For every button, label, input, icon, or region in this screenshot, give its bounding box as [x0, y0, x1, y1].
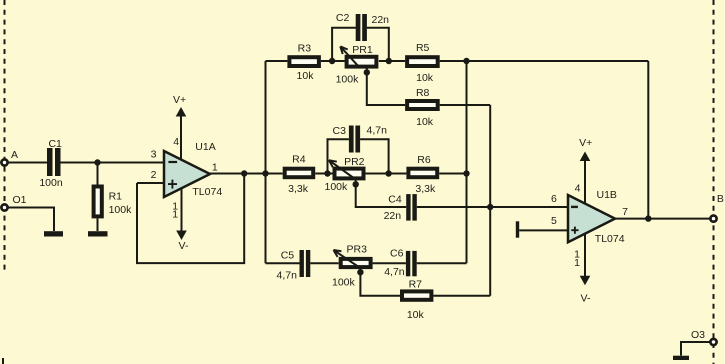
junction U1B output / top rail — [645, 215, 651, 221]
potentiometer PR1 body — [347, 57, 377, 67]
wire O1 to ground — [8, 208, 54, 232]
svg-text:1: 1 — [574, 257, 580, 269]
wire C4 right — [417, 206, 490, 208]
svg-text:22n: 22n — [384, 210, 402, 222]
svg-text:3: 3 — [151, 148, 157, 160]
wire row3 to C5 — [266, 262, 300, 264]
U1A pin 11 label (stacked digits) — [172, 200, 178, 220]
junction C3 right branch — [385, 170, 391, 176]
PR1 wiper terminal — [364, 68, 370, 76]
svg-text:V-: V- — [581, 293, 591, 305]
ground R1 — [88, 231, 108, 236]
svg-text:22n: 22n — [372, 14, 390, 26]
wire U1B output to B — [615, 218, 710, 220]
V+ supply arrow U1A — [176, 107, 187, 160]
svg-text:R6: R6 — [417, 154, 431, 166]
svg-text:2: 2 — [151, 169, 157, 181]
svg-text:R7: R7 — [409, 278, 423, 290]
junction R5 output — [463, 58, 469, 64]
U1A inverting input minus sign — [168, 161, 177, 163]
node A terminal — [1, 159, 7, 165]
wire left vertical bus — [265, 61, 267, 263]
ground O3 — [673, 356, 689, 360]
svg-text:100k: 100k — [325, 181, 349, 193]
capacitor C3 — [349, 126, 360, 153]
svg-text:4,7n: 4,7n — [277, 270, 298, 282]
junction C2 right branch — [386, 58, 392, 64]
svg-text:3,3k: 3,3k — [288, 183, 309, 195]
wire R8 right — [440, 104, 491, 106]
node O1 terminal — [1, 204, 7, 210]
svg-text:R1: R1 — [109, 190, 123, 202]
V- supply arrow U1A — [176, 188, 187, 240]
wire junction to U1B pin6 — [490, 206, 568, 208]
ground O1 — [44, 231, 63, 236]
V+ supply arrow U1B — [580, 152, 591, 205]
node O3 terminal — [710, 339, 716, 345]
resistor R4 — [285, 169, 314, 178]
left dashed border — [4, 0, 6, 272]
svg-text:C5: C5 — [281, 250, 295, 262]
resistor R6 — [408, 169, 437, 178]
U1B pin 11 label (stacked digits) — [574, 248, 580, 269]
wire C2 left branch — [332, 28, 356, 61]
svg-text:100k: 100k — [332, 277, 356, 289]
junction C3 left branch — [324, 170, 330, 176]
wire middle vertical bus — [466, 61, 468, 263]
capacitor C6 — [406, 251, 417, 276]
wire C5 to PR3 — [310, 262, 338, 264]
wire feedback loop U1A output to pin2 — [137, 174, 244, 264]
svg-text:10k: 10k — [416, 116, 434, 128]
op-amp U1A body — [164, 151, 210, 197]
svg-text:4,7n: 4,7n — [367, 125, 388, 137]
svg-text:TL074: TL074 — [595, 233, 625, 245]
U1A non-inverting input plus sign — [168, 180, 177, 189]
svg-text:V+: V+ — [579, 137, 592, 149]
capacitor C1 — [47, 148, 61, 176]
pin 5 terminal bar — [516, 221, 519, 237]
wire PR2 wiper to C4 — [356, 184, 407, 207]
wire R1 to ground — [97, 218, 99, 231]
svg-text:V-: V- — [179, 240, 189, 252]
wire R7 right — [433, 295, 490, 297]
svg-text:10k: 10k — [297, 70, 315, 82]
wire bar to U1B pin5 — [519, 229, 568, 231]
resistor R5 — [407, 57, 438, 66]
left border bottom dash — [2, 358, 4, 364]
wire R4 to PR2 — [315, 173, 332, 175]
junction C1/R1 — [94, 159, 100, 165]
wire U1A pin2 — [137, 182, 164, 184]
junction C2 left branch — [329, 58, 335, 64]
resistor R8 — [407, 101, 438, 109]
right dashed border — [713, 0, 715, 364]
wire PR3 to C6 — [373, 262, 406, 264]
U1B inverting input minus sign — [571, 206, 578, 208]
wire PR3 wiper to R7 — [360, 272, 400, 296]
resistor R1 — [94, 187, 102, 217]
svg-text:A: A — [11, 149, 18, 161]
wire C2 right branch — [367, 28, 389, 61]
svg-text:R8: R8 — [416, 87, 430, 99]
svg-text:U1A: U1A — [195, 141, 215, 153]
wire C3 left branch — [328, 139, 349, 173]
svg-text:6: 6 — [551, 193, 557, 205]
junction output row / left vertical — [262, 170, 268, 176]
capacitor C4 — [406, 194, 417, 221]
wire O3 to ground — [681, 342, 710, 356]
svg-text:10k: 10k — [416, 72, 434, 84]
potentiometer PR2 body — [335, 169, 364, 179]
PR2 wiper terminal — [353, 180, 359, 187]
junction R6 output — [463, 170, 469, 176]
svg-text:100k: 100k — [336, 74, 360, 86]
capacitor C2 — [356, 14, 367, 41]
wire C6 right to middle vertical — [417, 262, 467, 264]
op-amp U1B body — [568, 195, 615, 242]
potentiometer PR3 body — [341, 259, 371, 267]
wire C1 to U1A pin3 — [61, 162, 165, 164]
wire PR1 wiper to R8 — [367, 72, 405, 105]
svg-text:B: B — [717, 193, 724, 205]
svg-text:TL074: TL074 — [192, 186, 222, 198]
PR3 wiper terminal — [357, 269, 363, 276]
svg-text:U1B: U1B — [597, 189, 617, 201]
PR3 wiper arrow — [334, 250, 362, 269]
svg-text:C2: C2 — [336, 12, 350, 24]
svg-text:5: 5 — [551, 215, 557, 227]
wire R5 to top rail — [440, 60, 649, 62]
resistor R7 — [402, 291, 431, 299]
svg-text:C3: C3 — [333, 125, 347, 137]
wire right vertical R8 to R7 — [489, 105, 491, 296]
svg-text:1: 1 — [172, 209, 178, 221]
svg-text:7: 7 — [622, 206, 628, 218]
wire U1A output row — [210, 173, 283, 175]
wire R6 right — [439, 173, 466, 175]
svg-text:O3: O3 — [691, 329, 705, 341]
V- supply arrow U1B — [580, 233, 591, 285]
wire PR2 to R6 — [366, 173, 407, 175]
svg-text:PR1: PR1 — [352, 44, 373, 56]
wire top rail down to U1B output — [647, 61, 649, 219]
junction C4/R8/R7/pin6 — [487, 204, 493, 210]
node B terminal — [710, 216, 716, 222]
wire PR1 to R5 — [379, 60, 405, 62]
PR2 wiper arrow — [329, 160, 357, 180]
svg-text:R5: R5 — [416, 42, 430, 54]
svg-text:O1: O1 — [12, 194, 26, 206]
wire R3 to PR1 — [321, 60, 345, 62]
svg-text:1: 1 — [212, 162, 218, 174]
svg-text:100n: 100n — [39, 177, 63, 189]
svg-text:4: 4 — [173, 136, 179, 148]
PR1 wiper arrow — [340, 46, 360, 67]
svg-text:4: 4 — [575, 183, 581, 195]
resistor R3 — [289, 57, 319, 66]
svg-text:PR3: PR3 — [347, 244, 368, 256]
svg-text:3,3k: 3,3k — [415, 183, 436, 195]
svg-text:C6: C6 — [390, 248, 404, 260]
svg-text:R3: R3 — [298, 42, 312, 54]
svg-text:100k: 100k — [109, 204, 133, 216]
svg-text:V+: V+ — [173, 94, 186, 106]
capacitor C5 — [300, 250, 311, 277]
wire C3 right branch — [360, 139, 389, 173]
wire junction to R1 — [97, 163, 99, 185]
U1B non-inverting input plus sign — [571, 227, 578, 234]
svg-text:10k: 10k — [407, 309, 425, 321]
wire row1 to R3 — [266, 60, 288, 62]
svg-text:PR2: PR2 — [344, 156, 365, 168]
svg-text:C1: C1 — [48, 138, 62, 150]
wire A to C1 — [8, 162, 47, 164]
junction feedback on output — [241, 170, 247, 176]
svg-text:C4: C4 — [388, 193, 402, 205]
svg-text:R4: R4 — [292, 153, 306, 165]
svg-text:4,7n: 4,7n — [384, 266, 405, 278]
